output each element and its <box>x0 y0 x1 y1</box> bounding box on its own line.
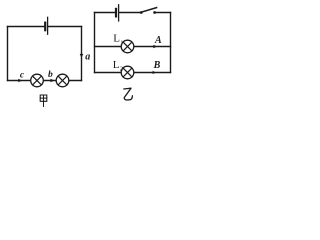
wire: left vertical <box>7 27 9 81</box>
current arrow at a <box>80 54 84 58</box>
caption 乙 (drawn glyph) <box>124 88 133 100</box>
current arrow at A <box>153 45 157 49</box>
right circuit 乙: top wire <box>95 12 171 14</box>
left circuit 甲: top wire <box>8 26 82 28</box>
svg-text:L: L <box>113 59 120 71</box>
wire: right vertical <box>81 27 83 81</box>
svg-text:B: B <box>153 60 161 71</box>
current arrow at B <box>153 71 156 74</box>
svg-text:1: 1 <box>120 39 123 46</box>
svg-text:a: a <box>85 51 90 62</box>
current arrow at b <box>51 79 55 83</box>
battery B2 (cell) <box>116 5 119 21</box>
wire: right circuit right vertical <box>170 13 172 73</box>
svg-text:L: L <box>113 33 120 45</box>
caption 甲 (drawn glyph) <box>40 95 47 106</box>
svg-text:2: 2 <box>120 66 123 73</box>
switch S1 <box>140 8 157 14</box>
wire: right circuit left vertical <box>94 13 96 73</box>
svg-text:b: b <box>48 70 53 80</box>
current arrow at c <box>18 79 22 83</box>
battery B1 (cell) <box>45 17 47 34</box>
lamp (left, near c) <box>31 74 44 87</box>
wire: branch B <box>95 72 171 74</box>
wire: branch A <box>95 46 171 48</box>
lamp (right, near b) <box>56 74 69 87</box>
wire: bottom <box>8 80 82 82</box>
lamp L1 <box>121 40 134 53</box>
lamp L2 <box>121 66 134 79</box>
svg-text:A: A <box>154 35 162 46</box>
